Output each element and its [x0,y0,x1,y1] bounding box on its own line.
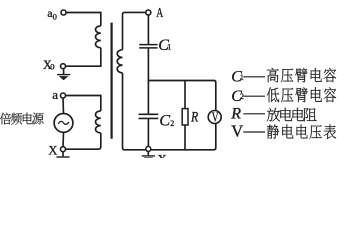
svg-text:0: 0 [53,11,57,21]
svg-text:C: C [159,113,170,130]
svg-text:2: 2 [240,92,244,101]
svg-text:0: 0 [50,62,54,72]
svg-text:V: V [231,122,243,141]
svg-text:R: R [230,106,241,123]
svg-text:a: a [52,87,58,102]
svg-text:A: A [156,6,164,21]
svg-text:2: 2 [170,119,174,128]
svg-text:V: V [212,109,219,124]
svg-text:R: R [190,109,198,125]
svg-text:1: 1 [167,43,171,52]
svg-text:X: X [157,151,167,158]
svg-text:X: X [48,143,57,157]
svg-text:1: 1 [240,73,244,82]
